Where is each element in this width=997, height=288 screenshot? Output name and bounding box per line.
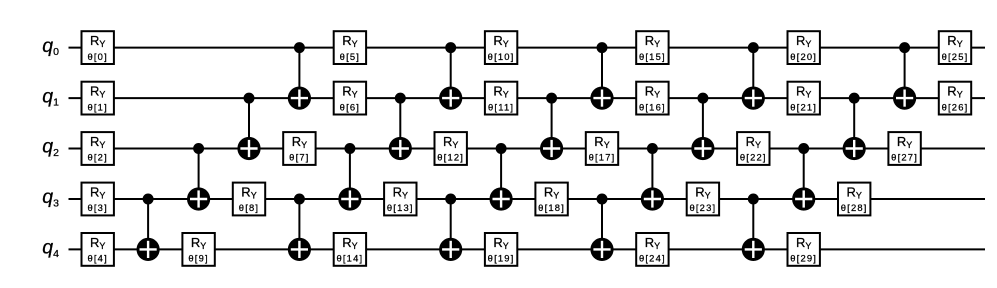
svg-text:θ[29]: θ[29]	[790, 253, 817, 264]
svg-text:θ[21]: θ[21]	[790, 101, 817, 112]
svg-text:θ[19]: θ[19]	[488, 253, 515, 264]
gate RY θ[26] on q1	[939, 82, 971, 115]
svg-text:q1: q1	[42, 85, 59, 108]
svg-text:θ[12]: θ[12]	[437, 152, 464, 163]
wire q1	[69, 97, 986, 99]
gate RY θ[21] on q1	[788, 82, 820, 115]
svg-text:θ[3]: θ[3]	[87, 202, 107, 213]
svg-text:θ[13]: θ[13]	[387, 202, 414, 213]
CNOT block 2: control q1, target q2	[389, 93, 412, 160]
CNOT block 1: control q3, target q4	[137, 194, 160, 262]
gate RY θ[1] on q1	[82, 82, 114, 115]
gate RY θ[14] on q4	[334, 233, 366, 266]
CNOT block 5: control q1, target q2	[843, 93, 866, 160]
svg-text:θ[25]: θ[25]	[942, 51, 969, 62]
gate RY θ[17] on q2	[586, 132, 618, 165]
gate RY θ[15] on q0	[636, 31, 668, 64]
CNOT block 1: control q0, target q1	[288, 42, 311, 110]
gate RY θ[22] on q2	[737, 132, 769, 165]
CNOT block 2: control q2, target q3	[338, 143, 361, 211]
gate RY θ[12] on q2	[435, 132, 467, 165]
CNOT block 2: control q0, target q1	[439, 42, 462, 110]
gate RY θ[25] on q0	[939, 31, 971, 64]
svg-text:θ[18]: θ[18]	[538, 202, 565, 213]
svg-text:θ[20]: θ[20]	[790, 51, 817, 62]
svg-text:θ[6]: θ[6]	[340, 101, 360, 112]
gate RY θ[13] on q3	[384, 183, 416, 216]
wire q2	[69, 148, 986, 150]
svg-text:q0: q0	[42, 35, 59, 58]
gate RY θ[0] on q0	[82, 31, 114, 64]
gate RY θ[2] on q2	[82, 132, 114, 165]
svg-text:θ[28]: θ[28]	[841, 202, 868, 213]
svg-text:q3: q3	[42, 186, 59, 209]
wire q4	[69, 248, 986, 250]
CNOT block 3: control q2, target q3	[490, 143, 513, 211]
wire q3	[69, 198, 986, 200]
svg-text:θ[14]: θ[14]	[336, 253, 363, 264]
gate RY θ[19] on q4	[485, 233, 517, 266]
gate RY θ[3] on q3	[82, 183, 114, 216]
gate RY θ[5] on q0	[334, 31, 366, 64]
CNOT block 5: control q3, target q4	[742, 194, 765, 262]
gate RY θ[18] on q3	[535, 183, 567, 216]
wire q0	[69, 47, 986, 49]
svg-text:θ[26]: θ[26]	[942, 101, 969, 112]
svg-text:θ[0]: θ[0]	[87, 51, 107, 62]
svg-text:θ[24]: θ[24]	[639, 253, 666, 264]
svg-text:θ[22]: θ[22]	[740, 152, 767, 163]
svg-text:θ[2]: θ[2]	[87, 152, 107, 163]
svg-text:θ[9]: θ[9]	[188, 253, 208, 264]
CNOT block 4: control q0, target q1	[742, 42, 765, 110]
svg-text:q4: q4	[42, 237, 59, 260]
CNOT block 5: control q0, target q1	[893, 42, 916, 110]
gate RY θ[23] on q3	[687, 183, 719, 216]
gate RY θ[6] on q1	[334, 82, 366, 115]
CNOT block 1: control q1, target q2	[237, 93, 260, 160]
CNOT block 2: control q3, target q4	[288, 194, 311, 262]
CNOT block 1: control q2, target q3	[187, 143, 210, 211]
CNOT block 4: control q1, target q2	[691, 93, 714, 160]
svg-text:θ[16]: θ[16]	[639, 101, 666, 112]
CNOT block 5: control q2, target q3	[792, 143, 815, 211]
gate RY θ[4] on q4	[82, 233, 114, 266]
svg-text:θ[17]: θ[17]	[589, 152, 616, 163]
gate RY θ[24] on q4	[636, 233, 668, 266]
gate RY θ[29] on q4	[788, 233, 820, 266]
CNOT block 3: control q1, target q2	[540, 93, 563, 160]
svg-text:θ[23]: θ[23]	[689, 202, 716, 213]
svg-text:q2: q2	[42, 136, 59, 159]
gate RY θ[28] on q3	[838, 183, 870, 216]
svg-text:θ[10]: θ[10]	[488, 51, 515, 62]
svg-text:θ[4]: θ[4]	[87, 253, 107, 264]
svg-text:θ[1]: θ[1]	[87, 101, 107, 112]
gate RY θ[20] on q0	[788, 31, 820, 64]
CNOT block 4: control q2, target q3	[641, 143, 664, 211]
gate RY θ[10] on q0	[485, 31, 517, 64]
svg-text:θ[5]: θ[5]	[340, 51, 360, 62]
gate RY θ[7] on q2	[283, 132, 315, 165]
gate RY θ[11] on q1	[485, 82, 517, 115]
CNOT block 3: control q0, target q1	[590, 42, 613, 110]
CNOT block 3: control q3, target q4	[439, 194, 462, 262]
CNOT block 4: control q3, target q4	[590, 194, 613, 262]
gate RY θ[8] on q3	[233, 183, 265, 216]
svg-text:θ[27]: θ[27]	[891, 152, 918, 163]
svg-text:θ[15]: θ[15]	[639, 51, 666, 62]
gate RY θ[16] on q1	[636, 82, 668, 115]
gate RY θ[27] on q2	[888, 132, 920, 165]
svg-text:θ[7]: θ[7]	[289, 152, 309, 163]
svg-text:θ[8]: θ[8]	[239, 202, 259, 213]
gate RY θ[9] on q4	[182, 233, 214, 266]
svg-text:θ[11]: θ[11]	[488, 101, 514, 112]
